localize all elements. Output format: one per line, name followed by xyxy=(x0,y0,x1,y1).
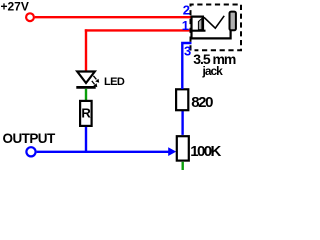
potentiometer 100K box xyxy=(177,136,189,160)
node +27V terminal xyxy=(26,13,34,21)
jack switch contact V xyxy=(204,16,224,28)
LED light arrow 2 xyxy=(92,81,95,85)
svg-text:2: 2 xyxy=(183,2,190,17)
svg-text:3: 3 xyxy=(184,44,191,59)
svg-text:+27V: +27V xyxy=(1,0,29,14)
LED light arrow 1 xyxy=(93,76,96,80)
resistor R box xyxy=(80,101,92,126)
wire blue pot to 820 xyxy=(181,111,183,135)
wire red branch to jack pin 1 xyxy=(85,29,191,31)
node OUTPUT terminal xyxy=(26,147,35,156)
LED D1 triangle xyxy=(77,72,95,84)
svg-text:100K: 100K xyxy=(190,143,221,160)
svg-text:1: 1 xyxy=(182,18,189,33)
svg-text:LED: LED xyxy=(104,76,125,88)
resistor 820 box xyxy=(176,89,188,110)
pot wiper arrow head xyxy=(168,147,176,156)
wire blue 820 to jack pin 3 xyxy=(182,43,191,89)
jack tip contact (left shape) xyxy=(191,16,206,39)
svg-text:820: 820 xyxy=(191,94,213,111)
wire black sleeve to pin 3 xyxy=(192,30,231,38)
jack tip contact gray pad xyxy=(198,18,202,29)
svg-text:OUTPUT: OUTPUT xyxy=(3,131,57,146)
svg-text:R: R xyxy=(81,106,91,121)
jack J1 dashed enclosure xyxy=(191,5,242,51)
wire green LED cathode to R xyxy=(85,89,87,100)
svg-text:jack: jack xyxy=(202,64,224,78)
LED cathode bar xyxy=(76,86,95,89)
wire red branch down to LED anode xyxy=(85,29,87,71)
green stub below pot xyxy=(181,162,183,170)
wire blue output horizontal to pot wiper xyxy=(37,151,169,153)
wire red +27V to jack pin 2 xyxy=(35,16,191,18)
jack sleeve contact bar xyxy=(230,12,236,31)
wire blue R to output line xyxy=(85,127,87,153)
